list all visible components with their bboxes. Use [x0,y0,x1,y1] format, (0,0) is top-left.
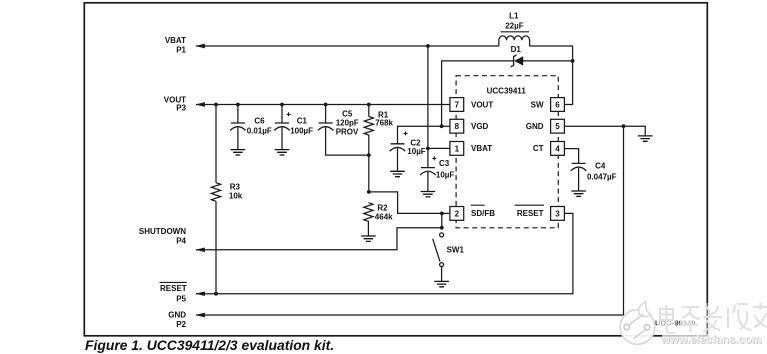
svg-text:RESET: RESET [517,209,544,218]
svg-text:C6: C6 [254,117,265,126]
label C4 value [587,162,617,182]
svg-text:8: 8 [455,122,460,131]
svg-text:C5: C5 [342,109,353,118]
wire pin5 GND net right [565,126,646,136]
wire C5 stub and bottom [326,105,369,156]
pin label RESET with overline [515,205,545,218]
svg-text:GND: GND [168,311,186,320]
ground SW1 [434,281,449,286]
svg-text:VBAT: VBAT [165,36,186,45]
svg-text:100µF: 100µF [290,127,313,136]
node C1 on VOUT [280,103,284,107]
node R3 on VOUT [214,103,218,107]
node pin1/C3 junction [426,147,430,151]
node SD/FB junction [440,212,444,216]
label R2 value [375,204,393,222]
label R3 value [229,182,243,200]
wire switch to ground stub [441,267,443,282]
terminal arrow P3 [195,102,205,107]
label C1 value [290,117,313,136]
svg-text:0.01µF: 0.01µF [247,127,272,136]
label C5 value [336,109,359,136]
terminal arrow P1 [195,44,205,49]
svg-text:L1: L1 [509,12,519,21]
ground C4 [571,191,586,196]
node C6 on VOUT [236,103,240,107]
inductor L1 [499,36,530,46]
terminal label RESET P5 with overline [160,282,187,303]
svg-text:www.elecfans.com: www.elecfans.com [660,334,762,346]
wire D1 cathode side [523,60,573,62]
terminal arrow P2 [195,313,205,318]
wire C3 stub below [427,172,429,192]
terminal label SHUTDOWN P4 [139,227,187,246]
watermark logo circle [620,302,655,345]
svg-text:10µF: 10µF [436,171,455,180]
svg-text:P1: P1 [176,46,186,55]
wire RESET P5 net [196,213,573,293]
ground C6 [231,150,246,155]
label C2 value [407,139,426,157]
wire pin1 VBAT [428,147,450,149]
node R1 on VOUT [367,103,371,107]
svg-text:SW: SW [531,100,544,109]
wire SHUTDOWN net [196,228,442,250]
wire VBAT net horizontal [196,45,499,47]
wire R3 column [215,105,217,294]
svg-text:P2: P2 [176,320,186,329]
pin 3 box [551,207,565,221]
node GND pin5 junction [622,124,626,128]
node D1/SW junction [571,59,575,63]
svg-text:7: 7 [455,100,460,109]
svg-text:10µF: 10µF [407,147,426,156]
wire R2 stub [367,221,369,236]
svg-text:C4: C4 [595,162,606,171]
wire VGD pin8 to C2 [398,126,451,171]
svg-text:P3: P3 [176,104,186,113]
capacitor C6 [230,123,246,130]
terminal arrow P5 [195,291,205,296]
svg-text:VOUT: VOUT [471,100,493,109]
label C6 value [247,117,272,136]
svg-text:P4: P4 [176,236,186,245]
node R3 on RESET [214,292,218,296]
capacitor C5 [318,123,334,130]
svg-text:R3: R3 [230,182,241,191]
switch SW1 [433,233,444,267]
node VGD junction [440,124,444,128]
pin 2 box [450,207,464,221]
capacitor C4 [571,163,587,170]
wire D1 anode to VGD column [442,61,514,126]
svg-text:6: 6 [555,100,560,109]
node VBAT junction [426,44,430,48]
ground C3 [421,192,436,197]
svg-text:P5: P5 [176,294,186,303]
wire L1 to SW corner [530,46,573,61]
wire pin4 CT to C4 [565,149,579,191]
svg-text:2: 2 [455,209,460,218]
wire GND P2 net [196,314,624,316]
resistor R1 [364,117,373,136]
svg-text:CT: CT [533,144,544,153]
svg-text:120pF: 120pF [336,119,359,128]
watermark chinese characters (approximated strokes) [658,303,767,333]
pin 5 box [551,119,565,133]
svg-text:464k: 464k [375,212,393,221]
resistor R3 [211,183,220,202]
svg-text:RESET: RESET [160,284,187,293]
pin 4 box [551,142,565,156]
ground C1 [275,150,290,155]
wire VBAT column down to C3 [427,46,429,168]
node C5/R1 bottom [367,153,371,157]
wire GND column down [623,126,625,315]
capacitor C1 [274,112,290,130]
capacitor C3 [420,156,436,175]
pin 6 box [551,98,565,112]
pin label SD/FB with overline [471,205,496,218]
pin 8 box [450,119,464,133]
svg-text:22µF: 22µF [505,22,524,31]
svg-text:PROV: PROV [336,128,359,137]
op-amp U1 UCC39411 dashed outline [456,76,558,228]
svg-text:0.047µF: 0.047µF [587,173,617,182]
capacitor C2 [390,131,408,151]
watermark url text [660,334,763,347]
label R1 value [375,110,393,127]
wire R1 branch [368,105,370,192]
terminal label VOUT P3 [164,96,187,113]
svg-text:VGD: VGD [471,122,489,131]
terminal arrow P4 [195,247,205,252]
svg-text:R2: R2 [377,204,388,213]
svg-text:SW1: SW1 [447,246,465,255]
wire VOUT net horizontal [196,104,450,106]
svg-text:SD/FB: SD/FB [471,209,495,218]
label L1 value [501,12,530,32]
svg-text:Figure 1. UCC39411/2/3 evaluat: Figure 1. UCC39411/2/3 evaluation kit. [85,337,334,353]
ground R2 [361,236,376,241]
wire R1R2 junction to pin 2 [369,192,450,214]
svg-text:D1: D1 [511,45,522,54]
wire pin2 junction down to switch node [441,213,443,227]
svg-text:C1: C1 [297,117,308,126]
svg-text:UCC39411: UCC39411 [487,87,527,96]
svg-text:1: 1 [455,144,460,153]
node switch top junction [440,226,444,230]
label C3 value [436,159,455,180]
wire C1 stub [281,105,283,150]
node C5 on VOUT [324,103,328,107]
wire C6 stub [237,105,239,150]
svg-text:768k: 768k [375,119,393,128]
resistor R2 [364,203,373,222]
pin 1 box [450,142,464,156]
svg-text:VBAT: VBAT [471,144,492,153]
svg-text:10k: 10k [229,192,243,201]
node R1/R2 junction [367,190,371,194]
terminal label GND P2 [168,311,186,330]
svg-text:GND: GND [526,122,544,131]
diode D1 [511,55,523,68]
svg-text:C3: C3 [439,159,450,168]
ground C2 [390,171,405,176]
wire SW vertical to pin 6 [565,61,573,105]
ground pin5 [638,136,653,141]
border frame [84,3,707,336]
terminal label VBAT P1 [165,36,187,55]
svg-text:SHUTDOWN: SHUTDOWN [139,227,186,236]
svg-text:5: 5 [555,122,560,131]
svg-text:4: 4 [555,144,560,153]
pin 7 box [450,98,464,112]
svg-text:3: 3 [555,209,560,218]
